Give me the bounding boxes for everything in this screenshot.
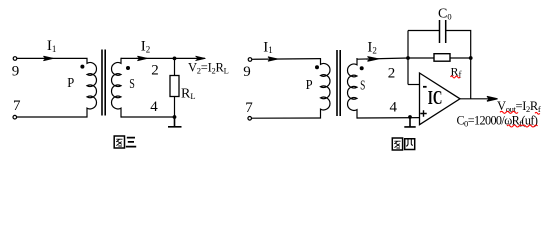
minus sign	[423, 86, 427, 88]
svg-text:P: P	[306, 78, 313, 93]
svg-text:S: S	[129, 77, 135, 92]
svg-text:V2=I2RL: V2=I2RL	[188, 60, 229, 75]
red squiggle under Rf	[451, 76, 461, 78]
red squiggle under "out"	[500, 111, 518, 113]
wire: C0 loop left top	[408, 30, 439, 32]
transformer core	[102, 50, 105, 116]
red squiggle under trailing f	[535, 112, 540, 114]
svg-text:Vout=I2Rf: Vout=I2Rf	[497, 99, 541, 114]
op-amp U1	[420, 73, 461, 125]
svg-text:IC: IC	[428, 86, 443, 108]
wire: C0 loop right top	[446, 31, 470, 59]
wire: top lead from terminal 9 to primary	[17, 57, 87, 59]
wire: bottom lead from terminal 7 to primary	[17, 116, 87, 118]
resistor Rf	[434, 54, 450, 62]
svg-text:RL: RL	[181, 86, 196, 101]
arrowhead V2 direction	[196, 56, 206, 61]
svg-text:2: 2	[388, 66, 396, 82]
wire: pin2 top wire to output	[121, 57, 205, 59]
terminal 7	[248, 117, 252, 121]
wire: junction down to RL	[174, 58, 176, 75]
node: top junction	[173, 57, 177, 61]
capacitor C0	[440, 20, 446, 43]
svg-text:7: 7	[13, 98, 21, 114]
transformer T2 secondary winding S	[348, 59, 358, 118]
char 图	[114, 136, 124, 148]
svg-text:4: 4	[390, 100, 398, 116]
terminal 7	[13, 115, 17, 119]
terminal 9	[248, 58, 252, 62]
wire: Rf to output node	[450, 57, 471, 59]
caption 图三	[114, 136, 136, 148]
node: bottom junction	[173, 115, 177, 119]
svg-text:C0: C0	[438, 7, 452, 22]
current arrow I2	[366, 57, 379, 62]
node: ground junction on + lead	[408, 115, 412, 119]
svg-text:I2: I2	[141, 39, 151, 55]
char 图	[392, 138, 402, 150]
current arrow I1	[266, 57, 278, 61]
svg-text:S: S	[360, 78, 365, 93]
resistor RL	[170, 76, 179, 97]
node: summing junction	[406, 56, 410, 60]
ground	[404, 117, 415, 127]
svg-text:9: 9	[243, 64, 251, 80]
transformer core	[337, 50, 340, 116]
svg-text:9: 9	[12, 63, 20, 79]
ground	[168, 117, 182, 127]
phase dot (secondary)	[360, 66, 364, 70]
wire: bottom lead terminal 7 to primary	[252, 117, 321, 119]
transformer T1 secondary winding S	[112, 58, 122, 117]
wire: top lead terminal 9 to primary	[252, 58, 320, 61]
svg-text:I1: I1	[263, 39, 273, 55]
wire: output with arrow	[460, 96, 498, 101]
svg-text:I1: I1	[47, 38, 57, 54]
wire: node vertical (C0 top / inverting input bottom)	[407, 31, 409, 85]
wire: feedback vertical to output	[470, 58, 472, 99]
wire: RL to bottom junction	[174, 97, 176, 118]
svg-text:I2: I2	[367, 40, 377, 56]
char 四	[405, 139, 415, 150]
wire: pin2 line to summing node and Rf	[357, 58, 434, 59]
svg-text:2: 2	[151, 63, 159, 79]
char 三	[126, 138, 136, 147]
red squiggle under "(uf"	[523, 125, 538, 127]
phase dot (primary)	[315, 65, 319, 69]
phase dot (primary)	[80, 65, 84, 69]
svg-text:7: 7	[245, 100, 253, 116]
phase dot (secondary)	[126, 66, 130, 70]
red squiggle under "wRf"	[507, 125, 522, 127]
svg-text:P: P	[67, 76, 74, 91]
wire: pin4 lead to non-inverting input	[357, 117, 420, 119]
transformer T2 primary winding P	[320, 59, 330, 118]
node: feedback/output junction	[469, 56, 473, 60]
current arrow I1	[43, 56, 53, 60]
terminal 9	[13, 57, 17, 61]
transformer T1 primary winding P	[87, 58, 97, 117]
svg-text:4: 4	[150, 99, 158, 115]
current arrow I2	[136, 56, 147, 60]
wire: pin4 bottom wire	[121, 116, 175, 118]
caption 图四	[392, 138, 414, 150]
plus sign	[420, 110, 426, 116]
wire: inverting input	[408, 84, 420, 86]
